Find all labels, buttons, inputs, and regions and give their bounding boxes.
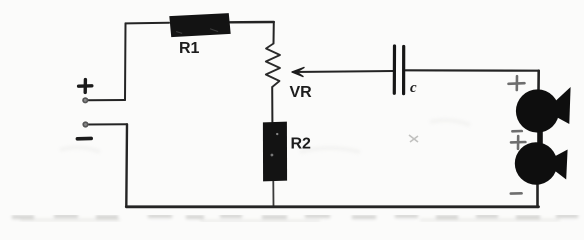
svg-text:c: c: [410, 80, 417, 96]
svg-text:R1: R1: [179, 40, 200, 57]
svg-text:R2: R2: [291, 136, 312, 153]
svg-text:VR: VR: [290, 84, 313, 101]
